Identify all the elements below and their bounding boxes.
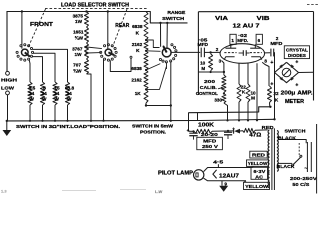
label RED boxed: [250, 151, 267, 158]
dashed leader to REAR switch: [113, 9, 128, 47]
svg-text:MFD: MFD: [270, 41, 283, 46]
potentiometer 200 CALIB CONTROL: [222, 75, 226, 93]
svg-text:6: 6: [258, 38, 261, 43]
svg-text:SWITCH: SWITCH: [285, 128, 307, 134]
svg-text:24: 24: [42, 91, 48, 96]
svg-text:1W: 1W: [75, 19, 83, 24]
wire left border to HIGH terminal: [6, 11, 8, 71]
resistor 8 ohm 24W load: [40, 82, 44, 105]
svg-text:1W: 1W: [74, 52, 82, 57]
svg-text:9: 9: [224, 181, 227, 186]
svg-text:22: 22: [241, 84, 247, 89]
triode V1A grid: [224, 52, 236, 54]
capacitor 20MFD second: [224, 131, 232, 133]
resistor 330: [223, 92, 225, 94]
svg-text:3: 3: [219, 58, 222, 63]
meter movement: [282, 68, 291, 77]
resistor 3767 1W: [85, 43, 89, 59]
wire rear switch lower contacts loop: [110, 58, 131, 71]
svg-text:RED: RED: [262, 125, 275, 130]
wire V1B grid drop: [247, 63, 249, 84]
junction top bus to chain: [85, 10, 87, 12]
svg-text:47Ω: 47Ω: [249, 132, 261, 138]
wire range wiper to coupling cap: [171, 51, 200, 53]
svg-text:VIB: VIB: [257, 16, 271, 22]
svg-text:REAR: REAR: [115, 23, 129, 29]
svg-text:VIA: VIA: [215, 16, 229, 22]
svg-text:63.8: 63.8: [65, 86, 75, 91]
svg-text:250 V: 250 V: [202, 144, 219, 149]
svg-text:YELLOW: YELLOW: [248, 161, 268, 166]
wire range wiper feed: [159, 22, 161, 24]
svg-text:¾W: ¾W: [75, 35, 84, 41]
svg-text:1K: 1K: [135, 91, 142, 96]
triode V1A cathode: [224, 57, 234, 60]
svg-text:12 AU 7: 12 AU 7: [233, 24, 260, 30]
triode V1B grid: [250, 52, 262, 54]
wire bridge left corner to bus end: [274, 73, 276, 120]
svg-text:100K: 100K: [198, 122, 215, 128]
svg-text:3875: 3875: [73, 13, 84, 18]
resistor 100K filter: [194, 129, 212, 133]
wire pin 8 to 22K: [262, 62, 269, 86]
diode rectifier: [234, 129, 240, 134]
label 6.3V AC boxed: [251, 167, 268, 179]
pin 1 chimney: [230, 34, 236, 44]
tube V1 12AU7 envelope: [220, 44, 265, 64]
resistor 707 3/4W: [85, 59, 89, 74]
wire range contact to ground bus: [170, 106, 172, 121]
wire black upper: [278, 140, 306, 144]
wire pin 4-5 tick: [217, 164, 219, 167]
svg-text:M: M: [201, 66, 205, 71]
pin 6 chimney: [256, 34, 262, 44]
wire bridge right corner to border: [299, 71, 314, 73]
wire ground bus: [6, 119, 275, 121]
wire filter to diode: [212, 130, 233, 132]
svg-text:24: 24: [67, 91, 73, 96]
svg-text:2162: 2162: [132, 42, 143, 47]
wire pin 9 down: [221, 181, 223, 186]
svg-text:SWITCH IN 3Ω"INT.LOAD"POSITION: SWITCH IN 3Ω"INT.LOAD"POSITION.: [16, 124, 120, 130]
transformer secondary winding left: [268, 130, 269, 188]
label YELLOW boxed: [247, 160, 269, 167]
svg-text:CRYSTAL: CRYSTAL: [286, 47, 308, 52]
wire chain tap to rear switch upper: [85, 46, 87, 48]
svg-text:200μ AMP.: 200μ AMP.: [281, 91, 314, 97]
svg-text:METER: METER: [285, 99, 304, 105]
wire range rotor feed: [166, 22, 168, 24]
svg-text:6838: 6838: [131, 66, 142, 71]
resistor 1651 3/4W: [85, 27, 89, 43]
wire B+ rail with end step: [189, 107, 271, 113]
svg-text:SWITCH: SWITCH: [162, 16, 185, 22]
wire 5mW line: [146, 105, 171, 107]
resistor 6838: [144, 51, 148, 70]
svg-text:MFD: MFD: [198, 42, 209, 47]
resistor 3.5 ohm 24W load: [28, 82, 32, 105]
mains switch toggle dashed: [298, 143, 300, 157]
wire V1A plate drop: [238, 63, 240, 84]
wire banner to yellow lower: [244, 181, 246, 183]
svg-text:8: 8: [43, 86, 46, 91]
svg-text:3767: 3767: [72, 46, 83, 51]
svg-text:W: W: [29, 96, 34, 101]
resistor 2162: [144, 70, 148, 89]
svg-text:200-250V: 200-250V: [290, 176, 318, 182]
svg-text:8: 8: [264, 58, 267, 63]
wire 330 to ground bus: [224, 103, 228, 120]
dashed leader to FRONT switch: [29, 9, 46, 47]
triode V1A anode: [230, 44, 232, 48]
label 12AU7 heater: [213, 170, 217, 179]
svg-text:6838: 6838: [132, 24, 143, 29]
svg-text:MFD.: MFD.: [237, 38, 248, 43]
terminal HIGH: [6, 71, 10, 75]
svg-text:FRONT: FRONT: [30, 22, 53, 28]
wire front contact to R 15: [33, 53, 55, 82]
transformer primary winding right: [277, 131, 278, 172]
wire top bus left section: [7, 12, 188, 23]
resistor 22K first: [237, 84, 241, 102]
resistor 63.8 ohm 24W load: [65, 82, 69, 105]
resistor 10M second: [246, 84, 250, 102]
junction top bus to rear switch: [107, 10, 109, 12]
label YELLOW lower: [244, 182, 270, 189]
wire front switch feed: [21, 12, 23, 49]
svg-text:LOAD SELECTOR SWITCH: LOAD SELECTOR SWITCH: [61, 2, 129, 8]
mains leads: [306, 142, 308, 172]
svg-text:AC: AC: [255, 174, 264, 180]
svg-text:24: 24: [54, 91, 60, 96]
rotary switch FRONT: [22, 49, 29, 56]
wire front contact to R 8: [32, 57, 43, 82]
triode V1B anode: [254, 44, 256, 48]
wire chain tap to rear switch lower: [85, 52, 87, 54]
wire diode to 47 ohm: [240, 130, 243, 132]
resistor 15 ohm 24W load: [53, 82, 57, 105]
svg-text:20-20: 20-20: [201, 132, 219, 137]
wire front contact to R 3.5: [28, 60, 31, 82]
ground arrow heater: [219, 186, 228, 192]
wire amplifier box left edge: [197, 12, 199, 95]
wire chain bottom to ground bus: [87, 74, 92, 121]
svg-text:W: W: [67, 96, 72, 101]
wire amplifier box top edge: [198, 11, 313, 13]
wire 47 ohm to transformer: [255, 129, 268, 131]
svg-text:50 C/S: 50 C/S: [292, 182, 310, 188]
svg-text:LOW: LOW: [1, 86, 15, 91]
svg-text:CONTROL: CONTROL: [196, 91, 218, 96]
wire rail riser to filter: [188, 113, 190, 132]
wire V1B cathode drop: [256, 63, 258, 120]
svg-text:+: +: [187, 128, 190, 133]
wire tap to range contact 3: [145, 69, 147, 71]
svg-text:CALIB.: CALIB.: [200, 85, 217, 90]
svg-text:W: W: [54, 96, 59, 101]
ground symbol: [6, 120, 8, 122]
svg-text:12AU7: 12AU7: [219, 173, 239, 179]
label box CRYSTAL DIODES: [284, 46, 309, 59]
heater banner 12AU7: [204, 168, 253, 172]
wire LOW to ground bus: [7, 95, 9, 121]
svg-text:10: 10: [250, 90, 256, 95]
capacitor 20MFD first: [189, 132, 197, 134]
wire range stub down: [166, 62, 168, 69]
artifact smudge 2: [120, 189, 146, 191]
svg-text:W: W: [42, 96, 47, 101]
resistor 10M grid leak: [209, 54, 213, 71]
svg-text:PILOT LAMP: PILOT LAMP: [158, 171, 194, 177]
wire rear contact to ground bus: [103, 59, 105, 120]
svg-text:1651: 1651: [73, 30, 84, 35]
svg-text:HIGH: HIGH: [1, 78, 18, 83]
wire range contact down long: [170, 61, 172, 105]
svg-text:¾W: ¾W: [73, 67, 82, 73]
capacitor .02 MFD coupling: [242, 50, 244, 56]
svg-text:RED: RED: [252, 153, 266, 159]
svg-text:6·3V: 6·3V: [253, 169, 266, 175]
svg-text:DIODES: DIODES: [288, 53, 306, 58]
wire V1A cathode down: [222, 61, 224, 76]
svg-text:1: 1: [231, 38, 234, 43]
svg-text:+: +: [295, 60, 298, 66]
svg-text:YELLOW: YELLOW: [245, 184, 268, 190]
svg-text:707: 707: [73, 62, 81, 67]
svg-text:L.W: L.W: [155, 189, 163, 194]
resistor 6838K: [144, 12, 148, 41]
svg-text:SWITCH IN 5mW: SWITCH IN 5mW: [132, 123, 174, 129]
svg-text:330: 330: [214, 97, 222, 102]
svg-text:+: +: [295, 83, 298, 89]
wire front contact to R 63.8: [33, 49, 68, 82]
svg-text:1.3: 1.3: [1, 189, 7, 194]
wire amplifier box right edge: [313, 12, 315, 101]
svg-text:2162: 2162: [131, 77, 142, 82]
wire black lower: [277, 162, 292, 164]
svg-text:MFD: MFD: [203, 138, 217, 143]
svg-text:2: 2: [216, 47, 219, 52]
wire rear switch feed: [107, 12, 109, 49]
svg-text:RANGE: RANGE: [167, 10, 186, 16]
dashed leader under label: [45, 7, 147, 9]
svg-text:3.5: 3.5: [29, 86, 36, 91]
resistor 3875 1W: [85, 12, 89, 28]
wire chain to 5mW line: [145, 103, 147, 106]
svg-text:+: +: [270, 60, 273, 66]
bridge rectifier diamond: [275, 62, 299, 82]
junction top bus to front switch: [21, 10, 23, 12]
resistor 22K second: [268, 86, 272, 103]
svg-text:24: 24: [29, 91, 35, 96]
rotary switch REAR: [105, 49, 112, 56]
wire rail to bus connector: [197, 113, 199, 121]
svg-text:4·5: 4·5: [213, 160, 224, 165]
svg-text:+: +: [270, 82, 273, 88]
artifact top right dashes: [307, 4, 318, 6]
wire cap to grid: [204, 51, 220, 53]
svg-text:M: M: [251, 96, 255, 101]
wire banner to yellow upper: [252, 166, 253, 169]
rotary switch RANGE: [162, 48, 171, 57]
svg-text:BLACK: BLACK: [277, 164, 296, 169]
svg-text:15: 15: [54, 86, 60, 91]
wire 10M bottom to cathode: [198, 71, 224, 73]
transformer core: [271, 128, 273, 190]
svg-text:POSITION.: POSITION.: [140, 130, 166, 136]
resistor 2162K: [144, 40, 148, 51]
svg-text:200: 200: [204, 79, 216, 84]
wire right border lower: [316, 124, 318, 194]
resistor 47 ohm: [243, 128, 256, 132]
wire tap to range wiper 1: [145, 39, 147, 41]
artifact smudge 1: [62, 190, 96, 192]
wire tap to range contact 4: [145, 88, 147, 90]
wire tap to range wiper 2: [145, 50, 147, 52]
resistor 1K: [144, 89, 148, 103]
svg-text:BLACK: BLACK: [278, 135, 297, 140]
triode V1B cathode: [251, 57, 262, 60]
wire cap to bridge: [273, 53, 276, 73]
